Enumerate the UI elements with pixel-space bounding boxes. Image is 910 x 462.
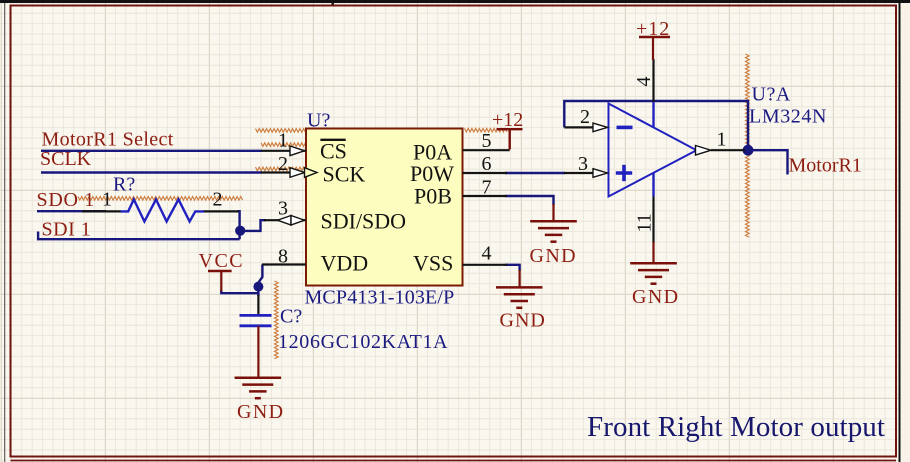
wire op-amp pin 11 to GND	[652, 242, 654, 263]
op-amp pin 1 output wire	[696, 129, 746, 155]
svg-text:U?A: U?A	[752, 84, 791, 106]
wire SDI 1 net	[38, 232, 240, 240]
op-amp pin 4 wire	[633, 59, 655, 102]
svg-text:11: 11	[634, 213, 656, 232]
svg-text:1: 1	[278, 130, 288, 152]
sheet right edge line	[899, 3, 901, 462]
U1 pin 2 number	[278, 153, 288, 175]
power symbol +12 at op-amp pin 4	[636, 18, 670, 60]
U1 pin name P0A	[413, 140, 452, 165]
svg-text:1: 1	[717, 129, 727, 151]
svg-text:Front Right Motor output: Front Right Motor output	[587, 411, 885, 443]
U1 pin 3 number	[278, 197, 288, 219]
U1 pin name VDD	[321, 251, 369, 276]
svg-text:2: 2	[213, 189, 223, 211]
ground symbol at U1 pin 4 VSS	[496, 287, 546, 331]
op-amp pin 2 wire	[564, 106, 607, 132]
svg-text:P0B: P0B	[414, 184, 452, 209]
svg-text:7: 7	[482, 177, 492, 199]
capacitor C? plates	[240, 315, 272, 325]
ground symbol at op-amp pin 11	[630, 263, 679, 308]
svg-text:GND: GND	[500, 310, 546, 332]
net label SDI 1	[42, 218, 92, 240]
svg-text:3: 3	[578, 153, 588, 175]
net label MotorR1 Select	[42, 129, 174, 151]
compile-error squiggle right of capacitor C?	[275, 281, 279, 359]
U1 pin 5 number	[482, 130, 492, 152]
wire VDD pin 8 down to node	[258, 265, 262, 297]
svg-text:3: 3	[278, 197, 288, 219]
U1 pin 3 bidirectional arrows	[278, 216, 305, 226]
svg-text:SCLK: SCLK	[40, 148, 92, 170]
value MCP4131-103E/P	[305, 287, 455, 309]
resistor R? body	[121, 199, 204, 221]
resistor R? pin 1	[82, 189, 121, 212]
wire op-amp feedback loop pin 2 to output	[564, 101, 748, 145]
designator U?	[307, 110, 330, 132]
wire U1 pin 4 VSS to GND	[505, 265, 520, 288]
wire MotorR1 Select net	[41, 150, 262, 152]
svg-text:CS: CS	[320, 139, 347, 164]
U1 pin name CS with overline	[320, 139, 347, 164]
svg-text:4: 4	[482, 243, 492, 265]
junction dot at VDD node	[253, 282, 263, 292]
power symbol +12 at U1 pin 5	[492, 109, 523, 150]
wire VCC to VDD node	[221, 290, 258, 293]
svg-text:1206GC102KAT1A: 1206GC102KAT1A	[278, 331, 448, 353]
compile-error squiggle at U1 pin 2	[256, 167, 308, 171]
svg-text:5: 5	[482, 130, 492, 152]
U1 pin 6 number	[482, 153, 492, 175]
svg-text:2: 2	[580, 106, 590, 128]
svg-text:GND: GND	[530, 245, 578, 267]
compile-error squiggle right of op-amp U?A	[746, 54, 750, 237]
U1 pin 1 wire	[261, 150, 306, 152]
U1 pin 3 wire	[264, 219, 306, 221]
U1 pin 8 number	[278, 246, 288, 268]
svg-text:8: 8	[278, 246, 288, 268]
designator C?	[280, 306, 302, 328]
svg-text:R?: R?	[113, 174, 135, 196]
net label SCLK	[40, 148, 92, 170]
U1 pin 2 wire	[261, 171, 306, 173]
U1 pin 4 wire	[463, 264, 508, 266]
op-amp pin 3 wire	[564, 153, 608, 177]
compile-error squiggle across resistor R?	[78, 197, 243, 201]
U1 pin name SDI/SDO	[321, 208, 407, 233]
svg-text:VDD: VDD	[321, 251, 369, 276]
op-amp pin 11 wire	[634, 197, 656, 244]
svg-text:+12: +12	[492, 109, 523, 131]
svg-text:MCP4131-103E/P: MCP4131-103E/P	[305, 287, 455, 309]
wire op-amp output to MotorR1 stub	[753, 150, 788, 174]
wire U1 pin 7 to GND	[505, 196, 554, 222]
junction dot at op-amp output node	[743, 145, 754, 156]
U1 pin 7 wire	[463, 195, 508, 197]
U1 pin 2 input arrow	[290, 168, 305, 178]
U1 pin 2 clock mark	[305, 168, 318, 178]
title text Front Right Motor output	[587, 411, 885, 443]
svg-text:GND: GND	[632, 286, 680, 308]
svg-text:SCK: SCK	[323, 162, 366, 187]
U1 pin 7 number	[482, 177, 492, 199]
svg-text:VCC: VCC	[199, 250, 245, 272]
U1 pin 1 number	[278, 130, 288, 152]
wire junction to U1 pin 3	[240, 220, 266, 231]
ground symbol at U1 pin 7	[530, 221, 578, 266]
U1 pin name P0B	[414, 184, 452, 209]
wire SCLK net	[41, 171, 262, 173]
junction dot at node SDI	[235, 226, 245, 236]
power symbol VCC	[199, 250, 245, 292]
sheet top edge line	[0, 0, 910, 7]
U1 pin name P0W	[410, 161, 454, 186]
wire capacitor to GND	[257, 326, 259, 377]
compile-error squiggle at U1 pin 5	[465, 128, 508, 132]
svg-text:MotorR1: MotorR1	[789, 155, 862, 177]
U1 pin 1 input arrow	[290, 146, 305, 156]
sheet left edge line	[4, 3, 5, 462]
wire SDO 1 net	[37, 210, 106, 212]
compile-error squiggle below U1 pin 1 number	[261, 143, 307, 147]
svg-text:2: 2	[278, 153, 288, 175]
svg-text:C?: C?	[280, 306, 302, 328]
value LM324N	[749, 106, 827, 128]
designator R?	[113, 174, 135, 196]
wire U1 pin 6 to op-amp pin 3	[505, 172, 565, 174]
wire resistor R? output to junction	[238, 211, 240, 239]
resistor R? pin 2	[203, 189, 239, 212]
U1 pin 6 wire	[463, 172, 508, 174]
svg-text:P0W: P0W	[410, 161, 454, 186]
svg-text:SDO 1: SDO 1	[37, 189, 96, 211]
svg-text:GND: GND	[237, 401, 285, 423]
net label SDO 1	[37, 189, 96, 211]
compile-error squiggle above U1 pin 1	[256, 129, 308, 133]
svg-text:4: 4	[633, 77, 655, 87]
U1 pin name SCK	[323, 162, 366, 187]
svg-text:LM324N: LM324N	[749, 106, 827, 128]
designator U?A	[752, 84, 791, 106]
U1 pin 5 wire	[463, 149, 510, 151]
IC U? MCP4131 body	[306, 129, 463, 286]
op-amp U?A triangle	[609, 101, 697, 197]
value 1206GC102KAT1A	[278, 331, 448, 353]
U1 pin name VSS	[413, 251, 453, 276]
svg-text:VSS: VSS	[413, 251, 453, 276]
wire node to capacitor C?	[257, 295, 259, 315]
U1 pin 8 wire	[262, 263, 306, 265]
ground symbol below C?	[235, 378, 285, 423]
U1 pin 4 number	[482, 243, 492, 265]
svg-text:1: 1	[102, 189, 112, 211]
svg-text:U?: U?	[307, 110, 330, 132]
svg-text:SDI/SDO: SDI/SDO	[321, 208, 407, 233]
svg-text:6: 6	[482, 153, 492, 175]
svg-text:SDI 1: SDI 1	[42, 218, 92, 240]
net label MotorR1	[789, 155, 862, 177]
